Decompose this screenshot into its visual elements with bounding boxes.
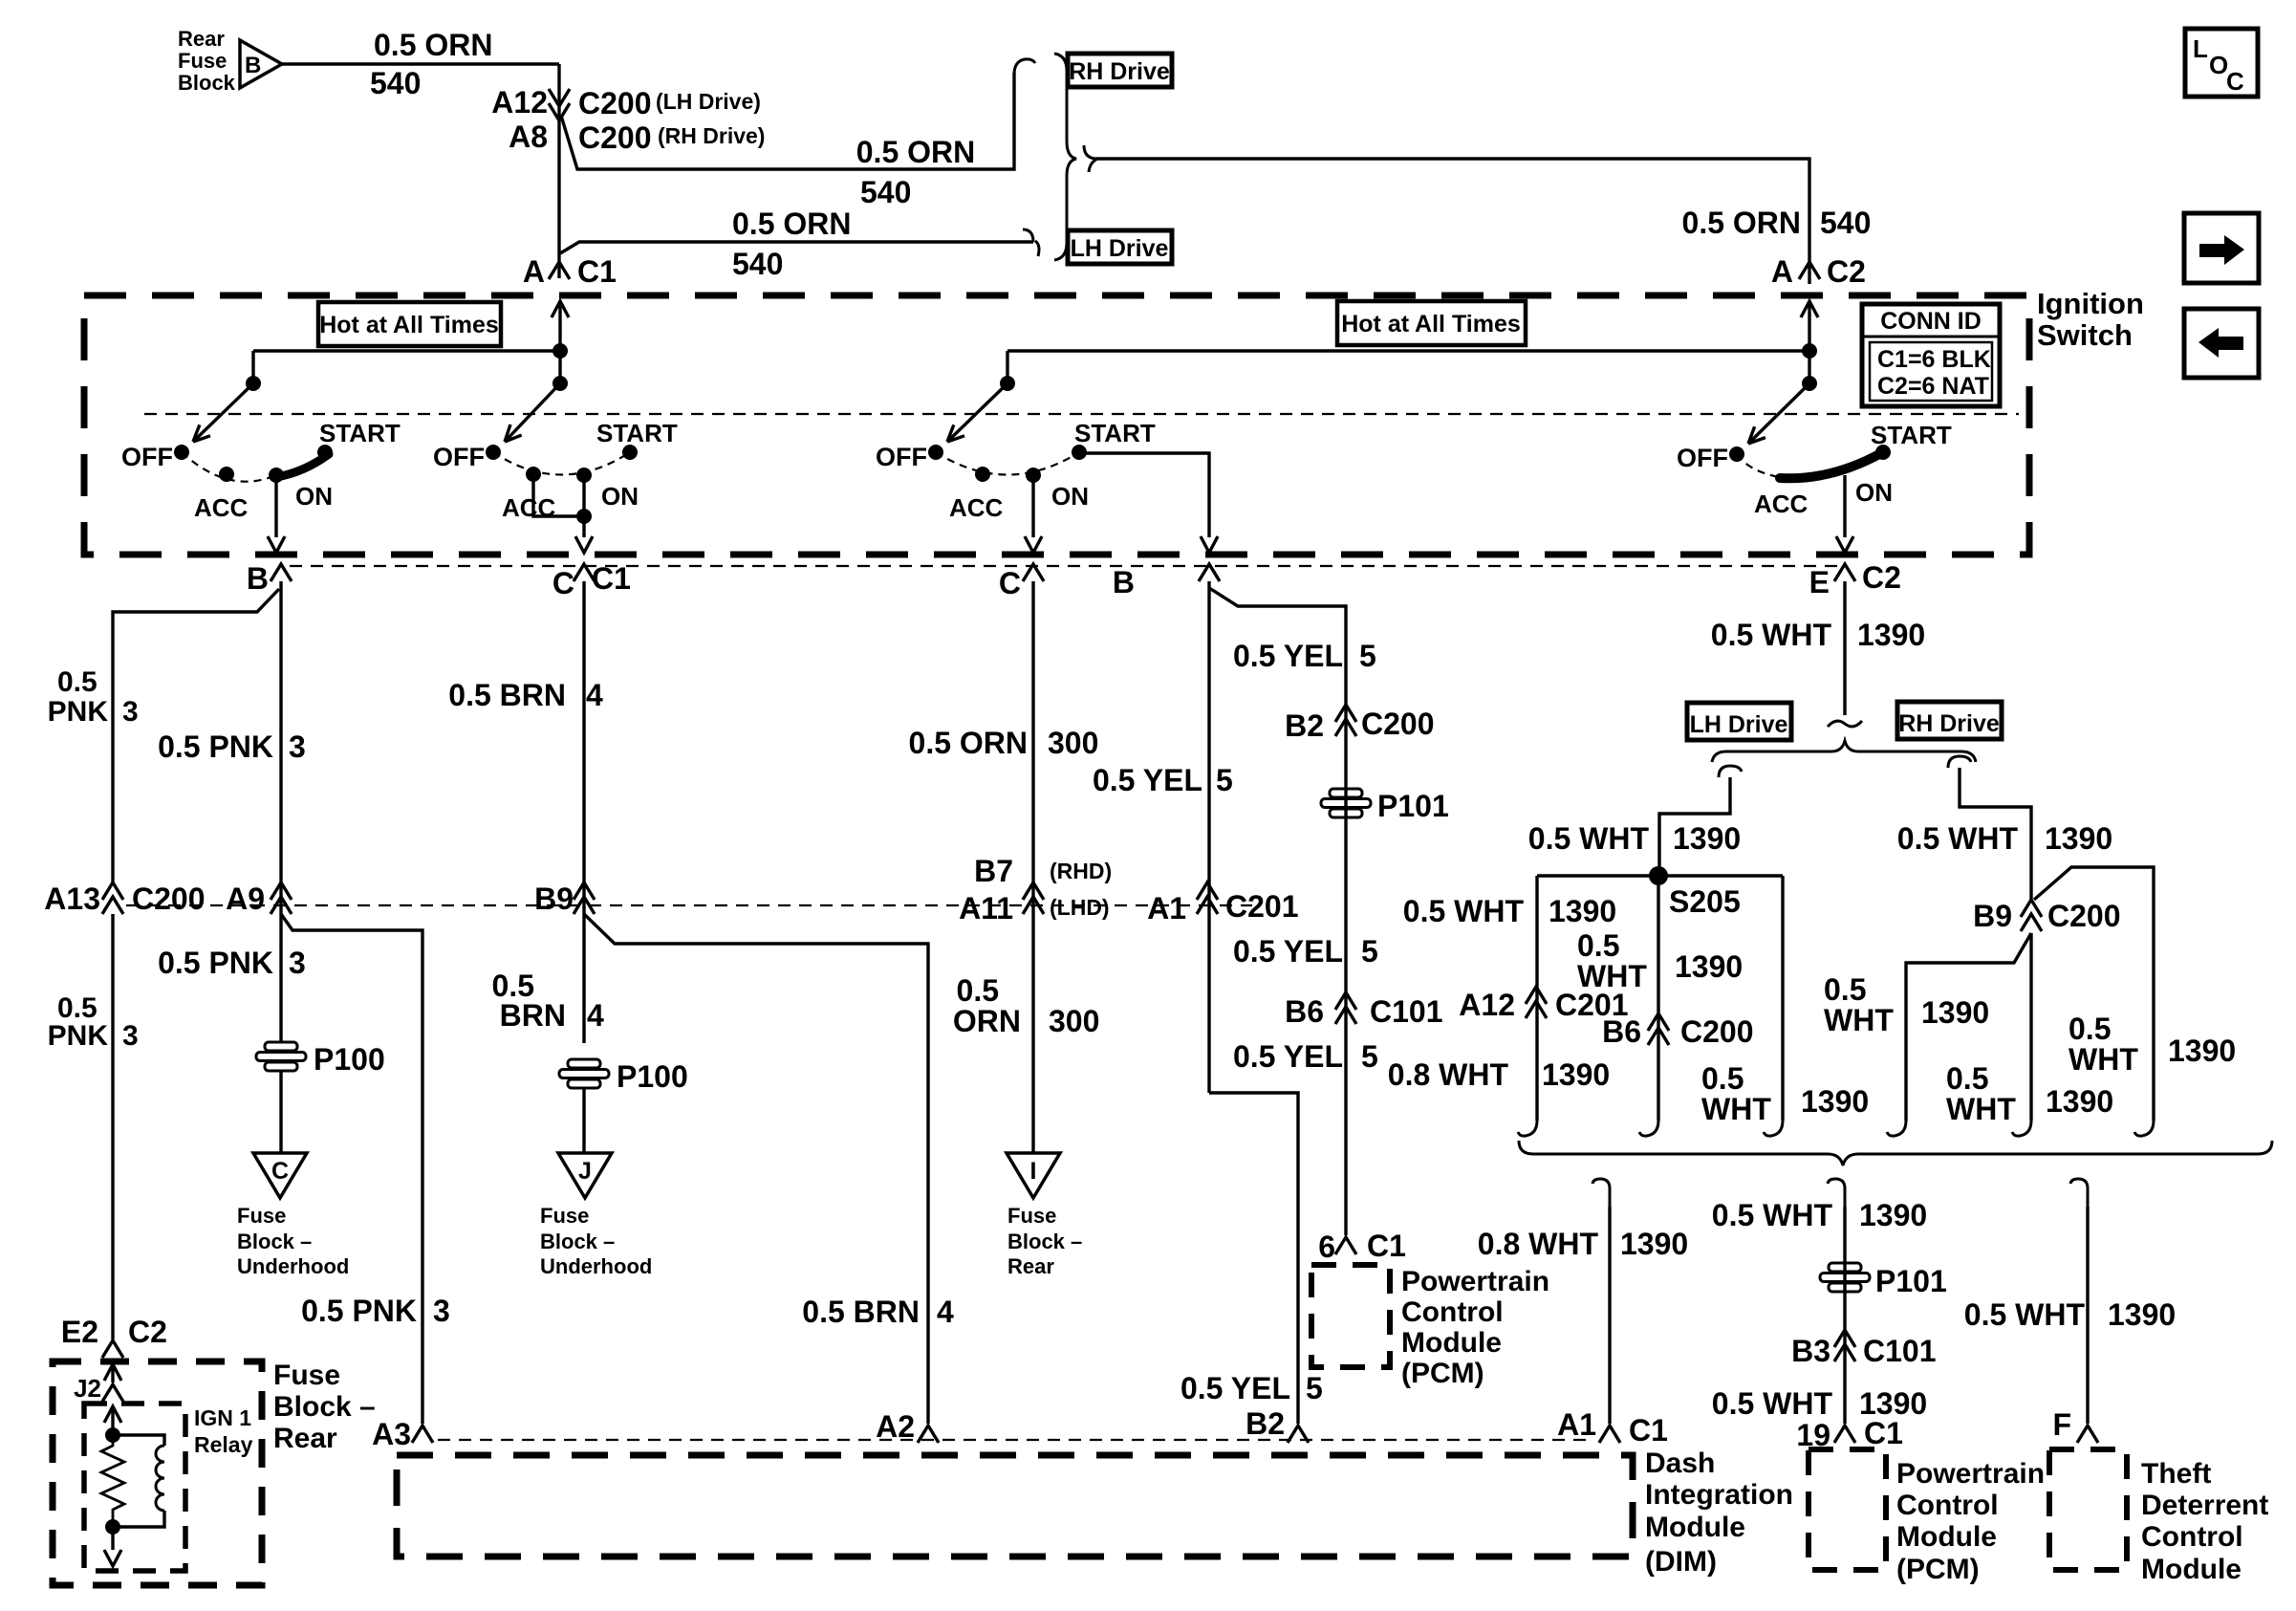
junction dot switch 2 pivot <box>552 376 568 391</box>
svg-text:C101: C101 <box>1370 994 1443 1029</box>
svg-text:B2: B2 <box>1285 708 1324 743</box>
svg-text:ACC: ACC <box>1754 490 1809 518</box>
ignition switch dashed box <box>84 295 2029 555</box>
junction dot switch 3 pivot <box>1000 376 1015 391</box>
curl end leg x1607 <box>1518 1121 1537 1136</box>
label 0.5 WHT 1390 (leg 1607) <box>1403 894 1616 928</box>
svg-text:C200: C200 <box>578 86 652 120</box>
label START sw3 <box>1074 419 1156 447</box>
svg-text:ACC: ACC <box>194 493 249 522</box>
svg-text:WHT: WHT <box>1824 1003 1894 1037</box>
label 0.5 WHT 1390 (leg 1734) <box>1577 928 1743 993</box>
svg-text:ON: ON <box>601 482 639 511</box>
label S205 <box>1669 884 1741 919</box>
svg-text:5: 5 <box>1361 934 1378 969</box>
svg-text:0.5 WHT: 0.5 WHT <box>1712 1386 1833 1421</box>
connector A13 C200 <box>44 882 205 916</box>
label Fuse Block Underhood (center) <box>540 1204 652 1278</box>
svg-text:P100: P100 <box>617 1059 688 1094</box>
wire down to switch 3 pivot <box>1006 351 1008 383</box>
svg-text:1390: 1390 <box>1921 995 1989 1030</box>
svg-text:B7: B7 <box>974 854 1013 888</box>
svg-text:B9: B9 <box>534 882 574 916</box>
junction dot switch 1 pivot <box>246 376 261 391</box>
svg-text:Rear: Rear <box>273 1423 337 1454</box>
wire WHT down leg x1864 <box>1781 876 1784 1121</box>
svg-text:A: A <box>523 254 545 289</box>
svg-text:A1: A1 <box>1557 1407 1596 1442</box>
brace merging RH/LH drive options <box>1054 54 1076 260</box>
label 0.8 WHT 1390 (leg 1607) <box>1388 1057 1610 1092</box>
drop wire to PCM 19 <box>1828 1179 1845 1424</box>
svg-text:Switch: Switch <box>2037 318 2133 352</box>
IGN 1 Relay dashed box <box>84 1404 185 1571</box>
label ON sw3 <box>1051 482 1089 511</box>
svg-text:P100: P100 <box>314 1042 385 1077</box>
svg-text:0.5 PNK: 0.5 PNK <box>158 729 273 764</box>
S205 bus wire <box>1537 874 1783 877</box>
svg-text:5: 5 <box>1306 1371 1323 1405</box>
svg-text:A8: A8 <box>509 120 548 154</box>
svg-text:0.5: 0.5 <box>1946 1061 1988 1096</box>
connector C below switch3 <box>999 564 1044 600</box>
svg-text:C101: C101 <box>1863 1334 1937 1368</box>
label 0.5 YEL 5 (left leg) <box>1093 763 1233 797</box>
svg-text:WHT: WHT <box>1701 1092 1771 1126</box>
svg-text:0.5 YEL: 0.5 YEL <box>1233 934 1343 969</box>
svg-text:0.5 YEL: 0.5 YEL <box>1093 763 1202 797</box>
junction dot right bus at C2 drop <box>1802 343 1817 359</box>
label 0.5 ORN 300 (upper) <box>909 726 1099 760</box>
svg-text:540: 540 <box>370 66 421 100</box>
svg-text:ORN: ORN <box>953 1004 1021 1038</box>
svg-text:Block –: Block – <box>1007 1230 1082 1253</box>
label C200 (LH Drive) <box>578 86 761 120</box>
svg-text:(DIM): (DIM) <box>1645 1546 1717 1578</box>
ignition switch pole 4 arm and contacts <box>1729 383 1891 477</box>
label 0.5 PNK 3 (far left upper) <box>48 666 139 728</box>
label OFF sw4 <box>1677 444 1728 472</box>
connector 6 C1 into PCM <box>1318 1229 1406 1264</box>
label 0.5 WHT 1390 (leg 2253) <box>2069 1012 2236 1077</box>
label 540 (RH run) <box>860 175 911 209</box>
wire 0.5 ORN 540 from triangle B <box>282 62 559 65</box>
CONN ID table <box>1862 304 2000 406</box>
wire WHT down leg x1607 <box>1535 876 1538 1121</box>
svg-text:0.5 ORN: 0.5 ORN <box>374 28 492 62</box>
svg-text:START: START <box>1074 419 1156 447</box>
svg-text:Powertrain: Powertrain <box>1401 1266 1549 1297</box>
switch 4 thick rotor arc <box>1780 453 1881 478</box>
svg-text:ON: ON <box>1855 478 1893 507</box>
svg-text:1390: 1390 <box>1542 1057 1610 1092</box>
svg-text:B: B <box>1113 565 1135 599</box>
Hot at All Times box left <box>318 302 501 346</box>
svg-text:P101: P101 <box>1875 1264 1947 1298</box>
connector A1 C201 <box>1147 882 1298 925</box>
label Theft Deterrent Control Module <box>2141 1458 2268 1585</box>
svg-text:1390: 1390 <box>1675 949 1743 984</box>
wire BRN to fuse J triangle <box>582 1089 585 1153</box>
ground-style triangle I Fuse Block Rear <box>1007 1153 1060 1198</box>
svg-text:A12: A12 <box>491 85 548 120</box>
label 0.5 ORN (top feed) <box>374 28 492 62</box>
svg-text:Underhood: Underhood <box>237 1254 349 1278</box>
PCM upper dashed box <box>1311 1265 1390 1367</box>
svg-text:Control: Control <box>1896 1490 1999 1521</box>
label START sw2 <box>596 419 678 447</box>
connector B9 (BRN) <box>534 882 595 916</box>
LH Drive box (WHT) <box>1687 703 1791 740</box>
svg-text:0.5: 0.5 <box>57 666 97 698</box>
svg-text:0.5 WHT: 0.5 WHT <box>1964 1297 2086 1332</box>
svg-text:A2: A2 <box>876 1409 915 1444</box>
svg-text:WHT: WHT <box>1946 1092 2016 1126</box>
wire WHT diagonal to far right leg <box>2034 867 2154 1121</box>
svg-text:PNK: PNK <box>48 696 109 728</box>
tilde break at WHT wire end <box>1828 721 1862 727</box>
label 0.5 WHT 1390 (leg 2124) <box>1946 1061 2113 1126</box>
svg-text:P101: P101 <box>1377 789 1449 823</box>
svg-text:3: 3 <box>289 946 306 980</box>
big underbrace joining WHT legs <box>1519 1141 2272 1165</box>
grommet P101 (WHT) <box>1820 1263 1947 1298</box>
svg-text:ON: ON <box>1051 482 1089 511</box>
wire PNK from B down <box>279 581 282 1041</box>
relay coil branch <box>113 1435 164 1527</box>
connector A C2 into ignition switch <box>1771 254 1866 289</box>
svg-text:4: 4 <box>587 998 604 1033</box>
wire switch1 ON output to B <box>268 475 285 553</box>
svg-text:Block –: Block – <box>237 1230 312 1253</box>
svg-text:C200: C200 <box>2047 899 2121 933</box>
connector B below switch3 START <box>1113 564 1220 599</box>
DIM dashed box <box>397 1455 1633 1557</box>
junction dot left bus at C1 drop <box>552 343 568 359</box>
svg-text:C1=6 BLK: C1=6 BLK <box>1877 346 1991 373</box>
svg-text:0.5 PNK: 0.5 PNK <box>301 1294 417 1328</box>
svg-text:3: 3 <box>433 1294 450 1328</box>
connector B below switch1 <box>247 561 292 596</box>
connector E2 C2 <box>61 1315 167 1358</box>
arrow from A C2 into switch feed <box>1801 301 1818 383</box>
left arrow navigation box <box>2184 309 2259 378</box>
svg-text:Underhood: Underhood <box>540 1254 652 1278</box>
svg-text:Ignition: Ignition <box>2037 287 2144 320</box>
svg-text:OFF: OFF <box>1677 444 1728 472</box>
junction dot switch 4 pivot <box>1802 376 1817 391</box>
connector B2 at DIM <box>1245 1406 1309 1443</box>
svg-text:Theft: Theft <box>2141 1458 2211 1490</box>
svg-text:B9: B9 <box>1973 899 2012 933</box>
connector B7/A11 <box>959 854 1112 925</box>
svg-text:0.5 ORN: 0.5 ORN <box>909 726 1028 760</box>
label 0.5 WHT 1390 (leg 1864) <box>1701 1061 1869 1126</box>
svg-text:0.5 BRN: 0.5 BRN <box>448 678 566 712</box>
label Rear Fuse Block <box>178 27 236 95</box>
svg-text:0.5 ORN: 0.5 ORN <box>856 135 975 169</box>
label 540 (top feed) <box>370 66 421 100</box>
svg-text:START: START <box>596 419 678 447</box>
connector B9 C200 (WHT) <box>1973 899 2120 933</box>
svg-text:0.5 WHT: 0.5 WHT <box>1897 821 2019 856</box>
wire BRN branch from B9 to A2 <box>584 914 928 1424</box>
svg-text:Relay: Relay <box>194 1432 253 1457</box>
svg-text:0.5 ORN: 0.5 ORN <box>1682 206 1801 240</box>
switch 1 thick rotor arc <box>276 454 329 477</box>
curl end leg x1734 <box>1639 1121 1658 1136</box>
svg-text:0.5 WHT: 0.5 WHT <box>1528 821 1650 856</box>
PCM lower dashed box <box>1809 1449 1886 1570</box>
svg-text:E: E <box>1809 565 1830 599</box>
svg-text:Hot at All Times: Hot at All Times <box>1341 311 1521 337</box>
svg-text:0.5 YEL: 0.5 YEL <box>1180 1371 1290 1405</box>
label 0.5 PNK 3 (center upper) <box>158 729 306 764</box>
svg-text:C1: C1 <box>592 561 631 596</box>
svg-text:START: START <box>319 419 401 447</box>
wire switch3 START output to B <box>1084 453 1218 553</box>
svg-text:Fuse: Fuse <box>540 1204 589 1228</box>
svg-text:Module: Module <box>1401 1327 1502 1359</box>
svg-text:RH Drive: RH Drive <box>1069 58 1170 85</box>
wire WHT down leg x2124 <box>2029 933 2032 1121</box>
svg-text:C200: C200 <box>578 120 652 155</box>
label A12 <box>491 85 548 120</box>
connector B6 C200 <box>1602 1013 1753 1049</box>
svg-text:C1: C1 <box>1864 1416 1903 1450</box>
svg-text:(RH Drive): (RH Drive) <box>658 123 765 148</box>
svg-text:J: J <box>578 1158 592 1185</box>
label 0.5 WHT 1390 (leg 1994) <box>1824 972 1989 1037</box>
svg-text:300: 300 <box>1048 726 1098 760</box>
svg-text:PNK: PNK <box>48 1020 109 1052</box>
label 0.5 BRN 4 (lower) <box>492 969 604 1033</box>
relay junction dot bottom <box>105 1519 120 1535</box>
svg-text:Control: Control <box>1401 1296 1504 1328</box>
svg-text:C200: C200 <box>1680 1014 1754 1049</box>
svg-text:1390: 1390 <box>1620 1227 1688 1261</box>
svg-text:Fuse: Fuse <box>1007 1204 1056 1228</box>
drop wire to DIM A1 <box>1592 1179 1610 1424</box>
relay resistor <box>101 1435 124 1527</box>
svg-text:1390: 1390 <box>2168 1034 2236 1068</box>
svg-text:540: 540 <box>1820 206 1871 240</box>
drop wire to Theft F <box>2070 1179 2088 1424</box>
svg-text:5: 5 <box>1361 1039 1378 1074</box>
svg-text:C2=6 NAT: C2=6 NAT <box>1877 373 1989 400</box>
label ACC sw4 <box>1754 490 1809 518</box>
wire branch to LH Drive <box>560 242 1033 253</box>
label 0.5 YEL 5 (right leg lower) <box>1233 1039 1378 1074</box>
wire PNK below A13 to E2 <box>111 914 114 1339</box>
label 0.5 ORN (LH run) <box>732 207 851 241</box>
svg-text:0.5: 0.5 <box>1701 1061 1744 1096</box>
ignition switch pole 3 arm and contacts <box>928 383 1087 483</box>
svg-text:B3: B3 <box>1791 1334 1830 1368</box>
svg-text:A: A <box>1771 254 1793 289</box>
svg-text:OFF: OFF <box>876 443 927 471</box>
svg-text:C1: C1 <box>1629 1413 1668 1448</box>
thin dashed connector line below ignition switch <box>290 565 1837 567</box>
label 0.5 ORN (RH run) <box>856 135 975 169</box>
svg-text:540: 540 <box>860 175 911 209</box>
svg-text:0.5 WHT: 0.5 WHT <box>1403 894 1525 928</box>
svg-text:1390: 1390 <box>2046 1084 2113 1119</box>
label Powertrain Control Module PCM (upper) <box>1401 1266 1549 1389</box>
svg-text:C: C <box>552 566 574 600</box>
wire switch4 ON output to E C2 <box>1836 475 1853 553</box>
wire switch3 ON output to C <box>1025 475 1042 553</box>
svg-text:0.5: 0.5 <box>1824 972 1866 1007</box>
curl at RH Drive wire end <box>1014 59 1035 75</box>
svg-text:A12: A12 <box>1459 988 1515 1022</box>
label 0.5 BRN 4 (upper) <box>448 678 603 712</box>
wire 0.5 ORN 540 to ignition A C2 <box>1095 159 1809 284</box>
connector A1 C1 at DIM <box>1557 1407 1668 1448</box>
svg-text:S205: S205 <box>1669 884 1741 919</box>
label 0.5 PNK 3 (far left lower) <box>48 992 139 1052</box>
svg-text:0.5 WHT: 0.5 WHT <box>1711 618 1832 652</box>
splice S205 dot <box>1649 866 1668 885</box>
label ACC sw2 <box>502 493 556 522</box>
label OFF sw3 <box>876 443 927 471</box>
svg-text:START: START <box>1871 421 1952 449</box>
svg-text:(LHD): (LHD) <box>1050 895 1110 920</box>
svg-text:Block: Block <box>178 71 236 95</box>
svg-text:B: B <box>245 53 261 78</box>
svg-text:1390: 1390 <box>2045 821 2112 856</box>
brace under LH/RH drive options <box>1712 741 1976 762</box>
connector A9 <box>226 882 292 916</box>
svg-text:Control: Control <box>2141 1521 2243 1553</box>
wire YEL left leg jog to B2 <box>1209 1093 1298 1424</box>
label 0.5 ORN 300 (lower) <box>953 973 1100 1038</box>
svg-text:Dash: Dash <box>1645 1448 1715 1479</box>
connector A C1 into ignition switch <box>523 254 617 289</box>
svg-text:ACC: ACC <box>949 493 1004 522</box>
svg-text:L: L <box>2193 34 2208 63</box>
label OFF sw1 <box>121 443 173 471</box>
label C200 (RH Drive) <box>578 120 765 155</box>
svg-text:C2: C2 <box>1827 254 1866 289</box>
svg-text:Deterrent: Deterrent <box>2141 1490 2268 1521</box>
svg-text:A13: A13 <box>44 882 100 916</box>
grommet P101 (YEL) <box>1321 789 1449 823</box>
svg-text:5: 5 <box>1359 639 1376 673</box>
connector A12/A8 C200 double chevron <box>549 89 570 120</box>
svg-text:C1: C1 <box>577 254 617 289</box>
label ON sw1 <box>295 482 333 511</box>
svg-text:RH Drive: RH Drive <box>1898 710 2000 737</box>
label Dash Integration Module DIM <box>1645 1448 1793 1578</box>
label IGN 1 Relay <box>194 1405 253 1457</box>
thin dashed connector line mid <box>126 904 1252 906</box>
svg-text:Fuse: Fuse <box>273 1360 340 1391</box>
svg-text:0.5 PNK: 0.5 PNK <box>158 946 273 980</box>
label START sw4 <box>1871 421 1952 449</box>
wire down to switch 1 pivot <box>251 351 254 383</box>
svg-text:CONN ID: CONN ID <box>1880 308 1982 335</box>
ground-style triangle J Fuse Block Underhood <box>558 1153 612 1198</box>
label 0.5 WHT 1390 (to Theft) <box>1964 1297 2176 1332</box>
Hot at All Times box right <box>1337 301 1526 345</box>
ground-style triangle C Fuse Block Underhood <box>253 1153 307 1198</box>
wire branch to RH Drive <box>561 73 1014 169</box>
svg-text:B: B <box>247 561 269 596</box>
curl start of ORN wire to A C2 <box>1084 145 1097 172</box>
wire WHT from E C2 down <box>1843 581 1846 715</box>
svg-text:OFF: OFF <box>433 443 485 471</box>
thin dashed connector line at DIM <box>438 1439 1587 1441</box>
label START sw1 <box>319 419 401 447</box>
label Powertrain Control Module PCM (lower) <box>1896 1458 2045 1585</box>
svg-text:Powertrain: Powertrain <box>1896 1458 2045 1490</box>
svg-text:A11: A11 <box>959 891 1013 925</box>
svg-text:A1: A1 <box>1147 891 1186 925</box>
svg-text:(PCM): (PCM) <box>1896 1554 1980 1585</box>
svg-text:I: I <box>1030 1158 1037 1185</box>
wire YEL from B down <box>1207 581 1210 1093</box>
svg-text:0.8 WHT: 0.8 WHT <box>1388 1057 1509 1092</box>
label 0.5 PNK 3 (center lower) <box>158 946 306 980</box>
svg-text:C200: C200 <box>132 882 206 916</box>
svg-text:E2: E2 <box>61 1315 98 1349</box>
connector J2 into fuse block <box>74 1364 123 1403</box>
svg-text:300: 300 <box>1049 1004 1099 1038</box>
label 0.5 PNK 3 (at A3) <box>301 1294 450 1328</box>
power feed triangle B from Rear Fuse Block <box>240 40 282 88</box>
label 0.5 WHT 1390 (below B3) <box>1712 1386 1927 1421</box>
svg-text:B6: B6 <box>1285 994 1324 1029</box>
LH Drive box (top) <box>1068 230 1172 264</box>
svg-text:3: 3 <box>122 696 139 728</box>
svg-text:Fuse: Fuse <box>237 1204 286 1228</box>
connector C C1 below switch2 <box>552 561 631 600</box>
wire YEL branch to right leg <box>1209 588 1346 1235</box>
wire PNK branch diagonal to left <box>113 589 279 884</box>
svg-text:C2: C2 <box>128 1315 167 1349</box>
svg-text:C2: C2 <box>1862 560 1901 595</box>
label 540 (right drop) <box>1820 206 1871 240</box>
label 0.8 WHT 1390 (to DIM) <box>1478 1227 1688 1261</box>
svg-text:1390: 1390 <box>2108 1297 2176 1332</box>
svg-text:1390: 1390 <box>1857 618 1925 652</box>
label A8 <box>509 120 548 154</box>
svg-text:0.5 YEL: 0.5 YEL <box>1233 1039 1343 1074</box>
svg-text:3: 3 <box>289 729 306 764</box>
svg-text:540: 540 <box>732 247 783 281</box>
wire BRN from C C1 down <box>582 581 585 1043</box>
svg-text:C200: C200 <box>1361 707 1435 741</box>
ignition switch pole 2 arm and contacts <box>486 383 638 483</box>
svg-text:B2: B2 <box>1245 1406 1285 1441</box>
svg-text:C1: C1 <box>1367 1229 1406 1263</box>
label 0.5 YEL 5 (at B2) <box>1180 1371 1323 1405</box>
svg-text:0.5 ORN: 0.5 ORN <box>732 207 851 241</box>
connector E C2 below switch4 <box>1809 560 1901 599</box>
svg-text:0.5: 0.5 <box>2069 1012 2111 1046</box>
svg-text:5: 5 <box>1216 763 1233 797</box>
wire WHT RH drive to B9 C200 <box>1960 768 2031 900</box>
Fuse Block Rear dashed box <box>53 1361 262 1585</box>
curl end leg x2253 <box>2134 1121 2154 1136</box>
svg-text:0.5 WHT: 0.5 WHT <box>1712 1198 1833 1232</box>
svg-text:0.5: 0.5 <box>1577 928 1619 963</box>
connector A2 at DIM <box>876 1409 939 1444</box>
svg-text:J2: J2 <box>74 1374 101 1403</box>
label ACC sw1 <box>194 493 249 522</box>
svg-text:4: 4 <box>586 678 603 712</box>
